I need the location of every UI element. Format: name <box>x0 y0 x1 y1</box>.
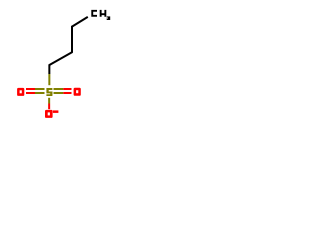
double bond S=O right, bottom line olive half <box>54 92 64 94</box>
label H of CH3 <box>100 10 107 17</box>
double bond S=O right, bottom line red half <box>63 92 71 94</box>
label 3 subscript of CH3 <box>107 16 111 20</box>
bond S-O(-) red half <box>48 104 50 110</box>
bond C2-S lower olive half <box>48 74 50 85</box>
label C of CH3 <box>91 10 97 17</box>
bond C4-CH3 <box>72 17 88 27</box>
double bond S=O right, top line olive half <box>54 88 64 90</box>
background <box>0 0 130 130</box>
double bond S=O left, top line olive half <box>35 88 45 90</box>
double bond S=O left, bottom line olive half <box>35 92 45 94</box>
double bond S=O right, top line red half <box>63 88 71 90</box>
label O left <box>17 88 24 96</box>
bond S-O(-) olive half <box>48 98 50 104</box>
bond C3-C2 <box>49 52 72 65</box>
double bond S=O left, bottom line red half <box>26 92 35 94</box>
minus charge of O(-) <box>53 110 59 113</box>
bond C2-S upper black half <box>48 64 50 74</box>
bond C4-C3 <box>71 26 73 53</box>
label S <box>46 88 52 96</box>
label O of O(-) <box>45 110 53 118</box>
label O right <box>74 88 81 96</box>
double bond S=O left, top line red half <box>26 88 35 90</box>
